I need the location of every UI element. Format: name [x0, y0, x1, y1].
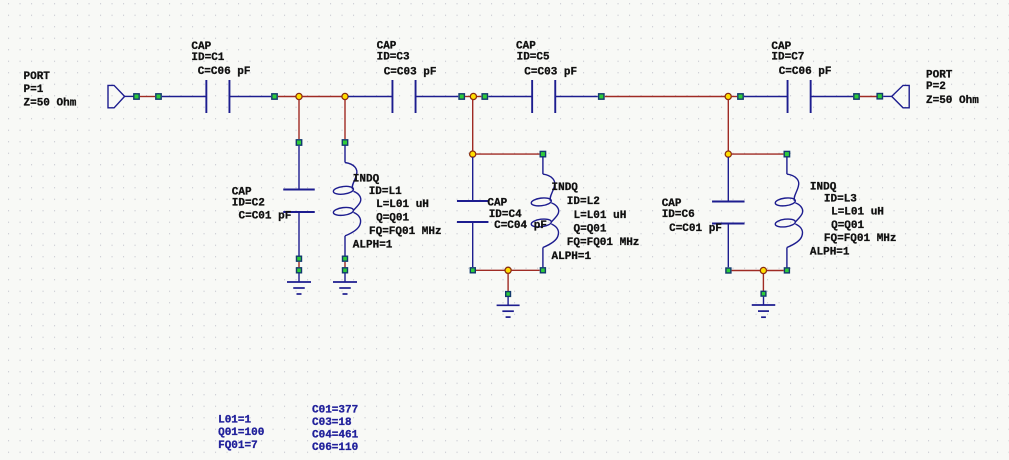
svg-text:ID=C7: ID=C7	[771, 52, 804, 64]
svg-text:ALPH=1: ALPH=1	[810, 247, 850, 259]
svg-text:ID=L3: ID=L3	[824, 194, 857, 206]
svg-text:FQ=FQ01 MHz: FQ=FQ01 MHz	[824, 233, 897, 245]
svg-text:FQ=FQ01 MHz: FQ=FQ01 MHz	[369, 226, 442, 238]
svg-text:C04=461: C04=461	[312, 429, 359, 441]
svg-text:C=C04 pF: C=C04 pF	[494, 220, 547, 232]
svg-text:ALPH=1: ALPH=1	[552, 251, 592, 263]
svg-text:C=C03 pF: C=C03 pF	[524, 67, 577, 79]
svg-text:INDQ: INDQ	[353, 173, 380, 185]
svg-text:Z=50 Ohm: Z=50 Ohm	[24, 98, 77, 110]
svg-text:C06=110: C06=110	[312, 442, 358, 454]
svg-text:PORT: PORT	[24, 71, 51, 83]
svg-text:Z=50 Ohm: Z=50 Ohm	[926, 95, 979, 107]
svg-text:ALPH=1: ALPH=1	[353, 240, 393, 252]
svg-text:INDQ: INDQ	[810, 182, 837, 194]
svg-text:ID=C2: ID=C2	[232, 198, 265, 210]
svg-text:CAP: CAP	[191, 41, 211, 53]
svg-text:L=L01 uH: L=L01 uH	[831, 206, 884, 218]
svg-text:P=2: P=2	[926, 81, 946, 93]
svg-text:ID=C5: ID=C5	[517, 52, 550, 64]
svg-text:ID=L1: ID=L1	[369, 186, 402, 198]
svg-text:INDQ: INDQ	[552, 182, 579, 194]
svg-text:FQ=FQ01 MHz: FQ=FQ01 MHz	[567, 237, 640, 249]
svg-text:P=1: P=1	[24, 84, 44, 96]
svg-text:PORT: PORT	[926, 70, 953, 82]
svg-text:Q=Q01: Q=Q01	[831, 220, 864, 232]
svg-text:L01=1: L01=1	[218, 415, 251, 427]
svg-text:C=C06 pF: C=C06 pF	[779, 66, 832, 78]
svg-text:FQ01=7: FQ01=7	[218, 440, 258, 452]
svg-text:C03=18: C03=18	[312, 417, 352, 429]
svg-text:C=C01 pF: C=C01 pF	[669, 223, 722, 235]
svg-text:Q=Q01: Q=Q01	[574, 224, 607, 236]
svg-text:C01=377: C01=377	[312, 404, 358, 416]
svg-text:ID=C3: ID=C3	[377, 51, 410, 63]
svg-text:Q01=100: Q01=100	[218, 427, 264, 439]
svg-text:ID=C4: ID=C4	[489, 209, 522, 221]
svg-text:ID=C6: ID=C6	[662, 209, 695, 221]
svg-text:C=C03 pF: C=C03 pF	[384, 67, 437, 79]
svg-text:L=L01 uH: L=L01 uH	[376, 199, 429, 211]
svg-text:L=L01 uH: L=L01 uH	[574, 210, 627, 222]
svg-text:C=C01 pF: C=C01 pF	[239, 211, 292, 223]
svg-text:ID=C1: ID=C1	[191, 52, 224, 64]
svg-text:C=C06 pF: C=C06 pF	[198, 66, 251, 78]
svg-text:ID=L2: ID=L2	[567, 196, 600, 208]
svg-text:Q=Q01: Q=Q01	[376, 213, 409, 225]
